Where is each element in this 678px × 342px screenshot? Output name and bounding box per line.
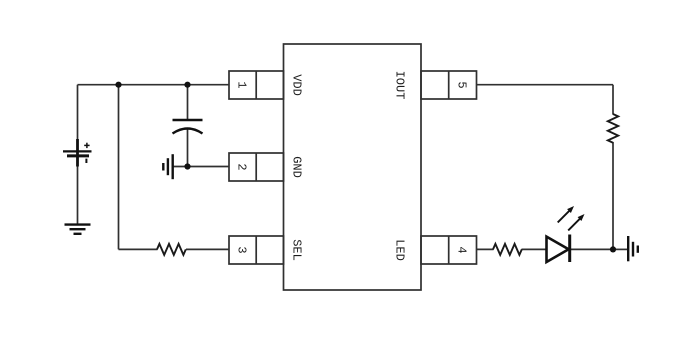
svg-text:2: 2: [234, 163, 248, 170]
resistor R2 (IOUT vertical): [608, 114, 618, 143]
wire SEL to resistor: [119, 248, 158, 250]
svg-text:IOUT: IOUT: [393, 71, 407, 100]
wire SEL rail down: [118, 85, 120, 250]
svg-text:3: 3: [234, 246, 248, 253]
pin 2 box: [229, 153, 284, 181]
resistor R1 (SEL): [157, 244, 186, 255]
wire LED to node: [570, 248, 614, 250]
ground (battery): [65, 225, 91, 234]
wire ground to pin 2: [173, 166, 229, 168]
wire pin 5 to right rail: [477, 84, 614, 86]
resistor R3 (LED): [493, 244, 522, 255]
svg-text:VDD: VDD: [290, 74, 304, 96]
node junction (cap / top): [184, 82, 190, 88]
svg-text:GND: GND: [290, 156, 304, 178]
node junction (SEL rail / top): [115, 82, 121, 88]
node junction (LED / right rail): [610, 246, 616, 252]
pin 4 box: [421, 236, 477, 264]
svg-text:1: 1: [234, 81, 248, 88]
node junction (cap / GND line): [184, 163, 190, 169]
wire pin 4 to resistor: [477, 248, 494, 250]
wire resistor to pin 3: [186, 248, 229, 250]
wire cap top: [187, 85, 189, 120]
ground (right, rotated right): [628, 236, 638, 261]
svg-text:SEL: SEL: [290, 239, 304, 261]
pin 3 box: [229, 236, 284, 264]
svg-text:5: 5: [455, 81, 469, 88]
wire battery to ground: [77, 151, 79, 225]
wire resistor to LED node: [612, 142, 614, 249]
wire VDD top rail: [78, 84, 230, 86]
pin 1 box: [229, 71, 284, 99]
wire LED node to ground: [613, 248, 628, 250]
svg-text:LED: LED: [393, 239, 407, 261]
wire right rail down to resistor: [612, 85, 614, 115]
pin 5 box: [421, 71, 477, 99]
battery BT1: [63, 139, 92, 167]
wire cap bottom to node: [187, 130, 189, 167]
ground (capacitor, rotated left): [163, 154, 172, 179]
wire resistor to LED: [522, 248, 547, 250]
LED D1: [547, 206, 585, 262]
capacitor C1: [173, 120, 203, 134]
wire left battery rail down: [77, 85, 79, 151]
op-amp U1 IC body: [284, 44, 422, 290]
svg-text:4: 4: [455, 246, 469, 253]
